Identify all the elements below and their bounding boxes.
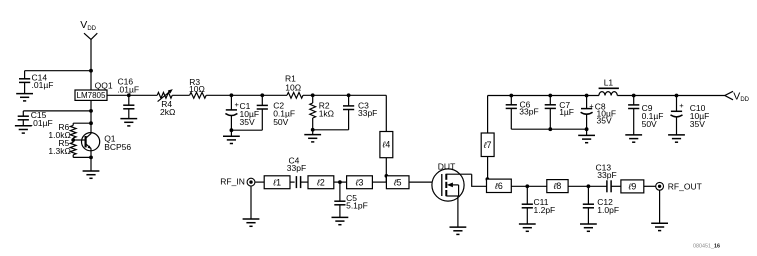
svg-text:QQ1: QQ1 <box>95 80 113 90</box>
ground below DUT source <box>450 227 467 234</box>
wire C11 bottom lead <box>526 208 528 224</box>
svg-text:33pF: 33pF <box>597 170 616 180</box>
capacitor C10 (electrolytic) <box>671 111 683 117</box>
capacitor C13 (series) <box>607 180 611 192</box>
wire C4 to l2 <box>301 181 308 183</box>
wire C7 top lead <box>549 96 551 105</box>
svg-text:080451_16: 080451_16 <box>693 244 720 250</box>
svg-text:ℓ1: ℓ1 <box>272 177 281 187</box>
svg-text:10Ω: 10Ω <box>285 82 301 92</box>
resistor R4 (variable) <box>157 92 172 98</box>
wire V_DD down to regulator <box>90 39 92 90</box>
wire down to l4 <box>385 95 387 131</box>
svg-text:RF_OUT: RF_OUT <box>668 181 702 191</box>
transistor DUT (MOSFET) <box>432 169 472 201</box>
junction node C6 top <box>509 94 513 98</box>
ground below C10 <box>668 135 685 142</box>
capacitor C2 <box>257 105 268 109</box>
svg-text:ℓ2: ℓ2 <box>316 177 325 187</box>
wire C6 top lead <box>510 96 512 105</box>
svg-text:ℓ5: ℓ5 <box>393 177 402 187</box>
wire port to l1 <box>255 181 264 183</box>
svg-text:BCP56: BCP56 <box>104 142 131 152</box>
junction node C7 bottom <box>548 127 552 131</box>
svg-text:.01µF: .01µF <box>31 118 53 128</box>
svg-text:VDD: VDD <box>733 91 749 104</box>
wire C13 to l9 <box>611 185 621 187</box>
svg-text:1.2pF: 1.2pF <box>534 205 556 215</box>
svg-text:35V: 35V <box>690 119 705 129</box>
wire gate (at bar) <box>441 181 443 183</box>
transmission line l6 <box>487 179 512 192</box>
svg-text:5.1pF: 5.1pF <box>346 201 368 211</box>
junction node C5 <box>338 180 342 184</box>
wire C15 bottom lead <box>22 120 24 126</box>
svg-text:10Ω: 10Ω <box>189 84 205 94</box>
wire C5 top lead <box>339 182 341 201</box>
wire C5 bottom lead <box>339 205 341 217</box>
wire R4 to R3 <box>172 94 189 96</box>
junction node C8 bottom/ground <box>585 127 589 131</box>
inductor L1 <box>599 88 619 95</box>
junction node C1/C2 bottom <box>230 128 234 132</box>
wire R5 bottom to emitter node <box>73 156 91 158</box>
wire l4 to input line <box>385 158 387 182</box>
svg-text:DUT: DUT <box>438 161 455 171</box>
capacitor C7 <box>545 105 556 109</box>
wire to ground below C1 <box>230 130 232 136</box>
capacitor C5 <box>334 201 345 205</box>
svg-text:35V: 35V <box>597 116 612 126</box>
capacitor C9 <box>628 105 639 109</box>
wire l3 to l5 <box>372 181 386 183</box>
power V_DD symbol (top left) <box>84 33 97 39</box>
transmission line l8 <box>547 180 568 193</box>
svg-text:.01µF: .01µF <box>117 84 139 94</box>
wire C8 bottom lead <box>586 114 588 129</box>
junction node C1 top <box>230 93 234 97</box>
ground below C12 <box>580 224 597 231</box>
wire l1 to C4 <box>290 181 295 183</box>
wire R6 top stub <box>72 123 74 125</box>
wire C3 top lead <box>348 95 350 106</box>
wire V_DD rail right part <box>617 95 725 97</box>
R4 wiper arrow <box>158 89 173 102</box>
wire to R6 top <box>73 122 91 124</box>
junction node C12 <box>587 184 591 188</box>
transmission line l4 <box>380 132 393 158</box>
wire regulator output to R4 <box>107 94 157 96</box>
wire C3 bottom to R2 bottom <box>313 129 349 131</box>
ground below C15 <box>15 126 32 133</box>
wire C15 top lead <box>22 111 24 116</box>
svg-text:1.0pF: 1.0pF <box>597 205 619 215</box>
wire RF_IN port to ground <box>250 186 252 219</box>
wire R2 top stub <box>312 95 314 103</box>
voltage regulator QQ1 LM7805 <box>75 90 107 100</box>
svg-text:ℓ8: ℓ8 <box>553 181 562 191</box>
wire R3 to R1 <box>206 94 287 96</box>
wire l6 to l8 <box>511 185 547 187</box>
junction node R2/C3 bottom <box>311 128 315 132</box>
wire to ground below R2 <box>312 130 314 135</box>
wire R2 bottom stub <box>312 118 314 130</box>
svg-text:VDD: VDD <box>80 19 96 32</box>
wire R5 bottom stub <box>72 155 74 158</box>
ground below C1 <box>223 136 240 143</box>
svg-text:1kΩ: 1kΩ <box>319 109 334 119</box>
ground below C14 <box>16 94 33 101</box>
wire bypass caps bottom bus <box>511 128 586 130</box>
junction node C15 <box>89 109 93 113</box>
junction node l4/l5 <box>385 174 389 178</box>
junction node regulator-gnd / R6 / Q1 collector <box>89 121 93 125</box>
wire to ground below C8 <box>586 129 588 135</box>
wire C10 bottom lead <box>676 117 678 135</box>
transmission line l5 <box>386 176 409 189</box>
svg-text:ℓ3: ℓ3 <box>355 177 364 187</box>
svg-text:L1: L1 <box>604 77 614 87</box>
ground below C16 <box>120 119 137 126</box>
svg-text:50V: 50V <box>642 119 657 129</box>
wire R6 bottom stub <box>72 138 74 140</box>
capacitor C16 <box>123 105 134 109</box>
wire l2 to l3 <box>334 181 347 183</box>
wire R1 to corner above l4 <box>303 94 386 96</box>
wire C8 top lead <box>586 96 588 109</box>
ground below C5 <box>332 217 349 224</box>
wire to ground below Q1 <box>90 157 92 171</box>
wire R5 top stub <box>72 140 74 142</box>
ground below RF_OUT port <box>651 223 668 230</box>
wire l7 down to l6 <box>487 157 489 180</box>
junction node R2 top <box>311 93 315 97</box>
svg-text:ℓ6: ℓ6 <box>494 181 503 191</box>
wire C10 top lead <box>676 96 678 112</box>
junction node C7 top <box>548 94 552 98</box>
wire C12 top lead <box>587 186 589 204</box>
ground below C8 <box>578 135 595 142</box>
wire C14 bottom lead <box>24 82 26 93</box>
junction node emitter/R5/ground <box>89 156 93 160</box>
wire C3 bottom lead <box>348 110 350 130</box>
wire C12 bottom lead <box>587 208 589 224</box>
wire Q1 collector up <box>90 123 92 134</box>
capacitor C4 (series) <box>296 176 300 188</box>
ground below C9 <box>625 135 642 142</box>
svg-text:LM7805: LM7805 <box>77 91 106 100</box>
junction node C9 top <box>632 94 636 98</box>
svg-text:50V: 50V <box>273 117 288 127</box>
wire C9 bottom lead <box>633 109 635 135</box>
svg-text:ℓ7: ℓ7 <box>483 140 492 150</box>
wire C16 top lead <box>128 95 130 105</box>
svg-text:33pF: 33pF <box>519 107 538 117</box>
resistor R3 <box>190 92 207 98</box>
wire DUT drain <box>472 174 487 186</box>
wire C2 top lead <box>261 95 263 105</box>
svg-text:RF_IN: RF_IN <box>220 177 245 187</box>
ground below C11 <box>519 224 536 231</box>
junction node C8 top <box>585 94 589 98</box>
wire to C14 <box>25 70 91 72</box>
wire regulator ground pin down <box>90 100 92 123</box>
wire RF_OUT port to ground <box>659 190 661 223</box>
wire top rail down to l7 <box>487 96 489 134</box>
capacitor C12 <box>583 204 594 208</box>
capacitor C14 <box>19 79 30 83</box>
ground below RF_IN port <box>243 219 260 226</box>
transmission line l9 <box>621 180 644 193</box>
wire l8 to C13 <box>568 185 607 187</box>
transmission line l1 <box>264 176 290 189</box>
svg-text:.01µF: .01µF <box>32 80 54 90</box>
capacitor C1 (electrolytic) <box>225 110 237 116</box>
resistor R6 <box>70 125 76 137</box>
junction node C11 <box>525 184 529 188</box>
wire C6 bottom lead <box>510 108 512 129</box>
svg-text:33pF: 33pF <box>287 163 306 173</box>
wire C11 top lead <box>526 186 528 204</box>
wire C7 bottom lead <box>549 108 551 129</box>
wire C16 bottom lead <box>128 109 130 119</box>
svg-text:ℓ9: ℓ9 <box>627 182 636 192</box>
port RF_OUT connector <box>656 182 664 190</box>
transmission line l3 <box>347 176 373 189</box>
junction node C16 <box>127 93 131 97</box>
wire Q1 emitter down <box>90 148 92 157</box>
svg-text:33pF: 33pF <box>358 108 377 118</box>
wire DUT source to ground <box>457 196 459 227</box>
capacitor C15 <box>18 116 29 120</box>
svg-text:35V: 35V <box>240 117 255 127</box>
svg-text:+: + <box>679 101 684 110</box>
wire C9 top lead <box>633 96 635 105</box>
wire l9 to RF_OUT port <box>644 185 656 187</box>
junction node C10 top <box>675 94 679 98</box>
junction node C2 top <box>260 93 264 97</box>
transmission line l7 <box>481 133 494 157</box>
wire l5 to DUT gate <box>409 181 442 183</box>
svg-text:2kΩ: 2kΩ <box>160 107 175 117</box>
capacitor C11 <box>522 204 533 208</box>
svg-text:ℓ4: ℓ4 <box>381 140 390 150</box>
wire C1 bottom to C2 bottom <box>231 129 262 131</box>
wire V_DD rail left part <box>488 95 599 97</box>
port RF_IN connector <box>247 178 255 186</box>
transmission line l2 <box>308 176 334 189</box>
junction node C3 top <box>347 93 351 97</box>
wire C2 bottom lead <box>261 109 263 130</box>
capacitor C6 <box>506 105 517 109</box>
power V_DD symbol (top right) <box>725 91 733 100</box>
capacitor C8 (electrolytic) <box>581 109 593 115</box>
junction node R6/R5/base <box>71 138 75 142</box>
svg-text:1µF: 1µF <box>559 107 574 117</box>
wire C14 top lead <box>24 71 26 79</box>
junction node C14/regulator input <box>89 69 93 73</box>
resistor R5 <box>70 142 76 155</box>
wire C1 top lead <box>230 95 232 110</box>
wire C1 bottom lead <box>230 116 232 131</box>
transistor Q1 BCP56 <box>73 133 100 151</box>
ground below Q1 <box>83 171 100 178</box>
capacitor C3 <box>343 106 354 110</box>
wire to C15 <box>23 110 91 112</box>
svg-text:1.3kΩ: 1.3kΩ <box>48 146 70 156</box>
ground below R2 <box>304 135 321 142</box>
resistor R1 <box>287 92 303 98</box>
resistor R2 <box>310 103 316 118</box>
junction node l7/l6 <box>486 177 490 181</box>
